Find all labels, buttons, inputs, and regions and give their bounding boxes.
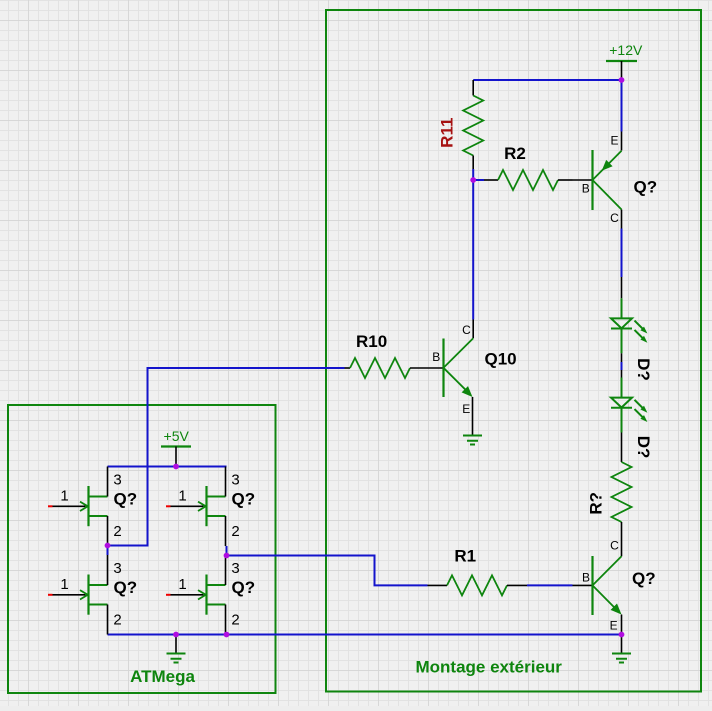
wire node to Q10 collector — [472, 180, 474, 320]
svg-text:C: C — [462, 323, 471, 337]
svg-text:R11: R11 — [438, 118, 457, 148]
svg-text:R1: R1 — [454, 547, 476, 566]
junction node rail/Q4 source — [224, 632, 230, 638]
ground (ATMega rail) — [167, 635, 186, 663]
svg-text:E: E — [610, 619, 618, 633]
LED D1 — [611, 277, 653, 381]
wire between LED D1 and LED D2 — [621, 362, 623, 370]
wire ATMega source rail to Q2 emitter node — [108, 634, 622, 636]
wire R1 right to Q2 base — [527, 584, 573, 586]
MOSFET Q? lower-right — [166, 555, 255, 635]
svg-text:+5V: +5V — [164, 428, 190, 444]
wire R11 bottom to node — [472, 169, 474, 180]
svg-text:D?: D? — [634, 358, 653, 381]
ground (Q10 emitter) — [463, 436, 482, 445]
wire R10 to ATMega half-bridge node — [108, 368, 345, 546]
svg-text:E: E — [462, 402, 470, 416]
wire emitter stub to +12V node — [621, 80, 623, 132]
power +12V terminal — [606, 42, 643, 80]
transistor Q10 (NPN) — [432, 320, 516, 435]
svg-text:C: C — [610, 539, 619, 553]
resistor R11 — [438, 80, 484, 169]
junction node gnd rail — [173, 632, 179, 638]
svg-text:Q10: Q10 — [485, 350, 517, 369]
svg-text:Montage extérieur: Montage extérieur — [416, 658, 563, 677]
svg-text:E: E — [610, 134, 618, 148]
svg-text:B: B — [432, 350, 440, 364]
svg-text:R2: R2 — [504, 144, 526, 163]
svg-text:ATMega: ATMega — [130, 667, 195, 686]
MOSFET Q? upper-right — [166, 467, 255, 547]
junction node +12V — [619, 77, 625, 83]
ground (Q2 emitter) — [612, 635, 631, 663]
svg-text:B: B — [582, 182, 590, 196]
svg-text:C: C — [610, 211, 619, 225]
svg-text:B: B — [582, 571, 590, 585]
svg-text:+12V: +12V — [609, 42, 643, 58]
resistor R2 — [484, 144, 573, 190]
wire +5V rail across MOSFET drains — [108, 466, 227, 468]
junction node Q2 emitter — [619, 632, 625, 638]
junction node right half-bridge — [224, 553, 230, 559]
subcircuit box "Montage exterieur" — [326, 10, 701, 692]
resistor R1 — [428, 547, 528, 596]
wire node to R2 left — [473, 179, 484, 181]
svg-text:R?: R? — [587, 492, 606, 515]
wire Q1 collector to LED D1 anode — [621, 229, 623, 278]
svg-text:D?: D? — [634, 436, 653, 459]
junction node R11/R2/Q10 — [470, 177, 476, 183]
svg-text:Q?: Q? — [634, 178, 658, 197]
wire node to lower-left MOSFET drain — [107, 546, 109, 556]
subcircuit box ATMega — [8, 405, 276, 693]
transistor Q1 (PNP) — [573, 132, 658, 229]
resistor R? — [587, 462, 632, 556]
MOSFET Q? upper-left — [48, 467, 137, 547]
transistor Q2 (NPN) — [573, 539, 656, 635]
wire upper-right MOSFET source to node — [226, 546, 228, 556]
junction node +5V rail — [173, 464, 179, 470]
wire +12V rail to R11/Q1 emitter column — [473, 79, 621, 81]
svg-text:R10: R10 — [356, 332, 387, 351]
LED D2 — [611, 370, 653, 462]
svg-text:Q?: Q? — [632, 569, 656, 588]
MOSFET Q? lower-left — [48, 555, 137, 635]
power +5V terminal — [161, 428, 191, 467]
resistor R10 — [345, 332, 444, 378]
wire right half-bridge node to R1 — [227, 556, 428, 586]
junction node left half-bridge — [105, 543, 111, 549]
